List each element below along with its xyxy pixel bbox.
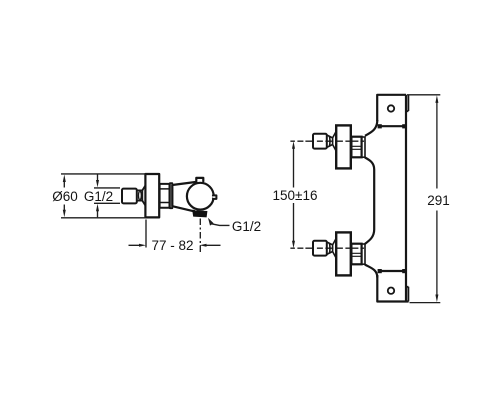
washer — [170, 183, 172, 208]
svg-text:291: 291 — [427, 193, 450, 208]
O60 up arrow — [63, 175, 66, 183]
leader arrowhead — [208, 218, 214, 226]
right jog top — [406, 96, 408, 112]
top plate hole — [388, 105, 394, 111]
main bar right edge — [405, 95, 407, 302]
G1/2 down arrow (above) — [96, 180, 99, 187]
77-82 left extension — [145, 220, 147, 248]
svg-text:Ø60: Ø60 — [52, 189, 78, 204]
svg-text:77 - 82: 77 - 82 — [151, 238, 193, 253]
dimension 291 — [407, 95, 440, 303]
S-curve lower flange to bottom plate — [365, 265, 378, 278]
arrowheads left view — [63, 175, 214, 247]
hex nut (side) — [160, 184, 170, 208]
G1/2 extension lines — [94, 188, 120, 203]
S-curve plate to upper flange — [365, 120, 377, 136]
leader to G1/2 outlet — [212, 224, 230, 226]
hex nut (front) — [351, 137, 361, 158]
outlet centerline dash-dot — [199, 219, 201, 253]
escutcheon disc O60 (side) — [145, 174, 159, 217]
outlet (black) — [192, 210, 207, 217]
cone neck — [137, 190, 142, 200]
bottom plate — [377, 271, 408, 302]
escutcheon disc (front) — [336, 125, 351, 168]
valve body trapezoid (side) — [172, 182, 195, 211]
cone barrel — [138, 192, 141, 200]
77-82 dimension line stubs — [129, 244, 221, 246]
77-82 left-pointing arrow — [200, 244, 207, 247]
svg-text:150±16: 150±16 — [273, 188, 318, 203]
right tab — [213, 195, 217, 199]
svg-text:G1/2: G1/2 — [84, 189, 113, 204]
lower inlet assembly — [290, 232, 365, 275]
washer flange — [362, 137, 365, 157]
O60 extension lines — [61, 174, 145, 218]
O60 dim arrows — [63, 180, 65, 212]
inlet nipple cylinder G1/2 — [122, 189, 137, 204]
centerline — [290, 140, 364, 142]
knob circle (side) — [187, 183, 214, 210]
dimension 150+-16 — [293, 147, 295, 243]
right jog bottom — [406, 287, 408, 302]
G1/2 up arrow (below) — [96, 204, 99, 211]
cone flare — [142, 186, 145, 206]
O60 down arrow — [63, 210, 66, 218]
cone — [327, 132, 336, 151]
upper inlet assembly — [290, 125, 365, 168]
G1/2 dim arrows shafts — [97, 175, 99, 218]
bar left edge upper-to-lower inlet — [365, 157, 374, 244]
77-82 right-pointing arrow — [139, 244, 146, 247]
svg-text:G1/2: G1/2 — [232, 219, 261, 234]
top tab — [196, 178, 203, 182]
corner blobs — [378, 124, 407, 273]
bottom plate hole — [388, 288, 394, 294]
wall nut — [313, 134, 327, 149]
top plate — [377, 95, 406, 126]
